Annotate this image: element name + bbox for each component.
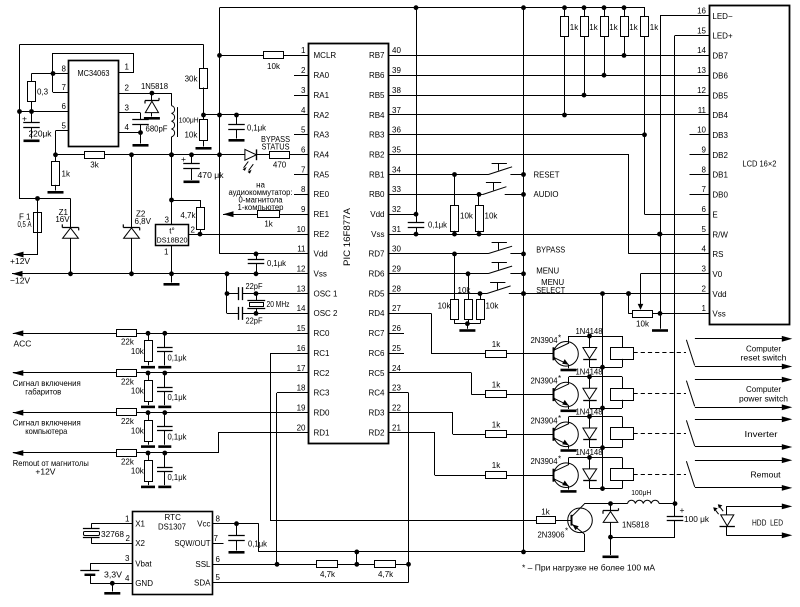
wire LED- to ground (660, 16, 662, 314)
capacitor 0,1uk DS1307 (236, 524, 238, 536)
diode 1N5818 filter (610, 504, 612, 511)
resistor 0,3 (31, 74, 33, 82)
svg-text:0,1μk: 0,1μk (168, 433, 188, 442)
contact lines K1 (695, 338, 789, 340)
wire RB4-DB4 (389, 114, 710, 116)
svg-text:RD6: RD6 (368, 270, 385, 279)
contact lever K2 (686, 381, 694, 407)
wire +12V input top rail (20, 45, 204, 199)
zener Z1 16V (70, 199, 72, 228)
svg-text:компьютера: компьютера (25, 426, 67, 436)
svg-text:10k: 10k (486, 302, 500, 311)
svg-text:2: 2 (125, 84, 130, 93)
svg-text:5: 5 (216, 573, 221, 582)
svg-text:6: 6 (702, 205, 707, 214)
resistor 1k base Q1 (486, 351, 507, 358)
svg-text:BYPASS: BYPASS (536, 245, 565, 254)
crystal 32768 (91, 523, 132, 525)
svg-text:38: 38 (392, 86, 401, 95)
wire MC pin5 (56, 130, 69, 132)
svg-text:1N4148: 1N4148 (576, 368, 604, 377)
svg-text:14: 14 (297, 304, 306, 313)
wire RC3 to SSL (277, 392, 309, 394)
fuse F1 0,5A (23, 199, 38, 255)
svg-text:R/W: R/W (712, 230, 728, 239)
arrow +12V (13, 252, 24, 258)
wire LCD LED+ (675, 35, 710, 37)
link mechanical K2 (634, 393, 687, 395)
svg-text:470 μk: 470 μk (198, 171, 225, 180)
svg-text:Vdd: Vdd (712, 290, 726, 299)
capacitor 0,1uk Vdd11 (254, 252, 259, 257)
svg-text:*: * (558, 455, 561, 464)
svg-text:25: 25 (392, 344, 401, 353)
svg-text:Vss: Vss (371, 230, 384, 239)
diode 1N4148 Q1 (589, 336, 591, 348)
svg-text:6: 6 (62, 102, 67, 111)
svg-text:+: + (680, 505, 685, 515)
svg-text:11: 11 (297, 245, 306, 254)
svg-text:2: 2 (126, 534, 131, 543)
svg-text:1N5818: 1N5818 (141, 82, 169, 91)
svg-text:7: 7 (301, 165, 306, 174)
svg-text:680pF: 680pF (146, 125, 168, 134)
svg-text:24: 24 (392, 364, 401, 373)
wire LCD Vdd (509, 293, 710, 295)
svg-text:22k: 22k (121, 457, 135, 466)
wire RC4 to SDA (389, 392, 409, 394)
resistor 10k MCLR (220, 55, 310, 57)
wire SDA line (408, 564, 410, 582)
wire MC pin7 (53, 92, 69, 94)
wire LED+ drop (674, 36, 676, 504)
stub PIC pin 8 (294, 194, 309, 196)
stub PIC pin 25 (389, 353, 404, 355)
svg-text:10k: 10k (460, 212, 474, 221)
svg-text:2N3904: 2N3904 (531, 336, 559, 345)
junction rail divider (217, 113, 222, 118)
svg-text:10k: 10k (184, 131, 198, 140)
switch RESET (489, 167, 513, 175)
svg-text:13: 13 (297, 284, 306, 293)
svg-text:15: 15 (697, 26, 706, 35)
svg-text:LED−: LED− (712, 12, 733, 21)
sensor DS18B20 (156, 225, 189, 246)
svg-text:1: 1 (164, 248, 169, 257)
svg-text:+: + (22, 114, 27, 124)
svg-text:3: 3 (165, 216, 170, 225)
svg-text:10: 10 (297, 225, 306, 234)
svg-text:8: 8 (62, 65, 67, 74)
resistor 10k reset pulldown (454, 175, 456, 206)
svg-text:33: 33 (392, 185, 401, 194)
svg-text:0,1μk: 0,1μk (248, 540, 268, 549)
svg-text:RD7: RD7 (368, 250, 385, 259)
svg-text:22pF: 22pF (246, 282, 263, 291)
svg-text:RC0: RC0 (314, 329, 331, 338)
capacitor 22pF upper (239, 287, 243, 300)
svg-text:0,1μk: 0,1μk (168, 353, 188, 362)
svg-text:100 μk: 100 μk (684, 515, 710, 524)
contact lines K4 (695, 460, 789, 462)
wire MC pin6 (20, 111, 69, 113)
svg-text:0,1μk: 0,1μk (168, 393, 188, 402)
svg-text:23: 23 (392, 384, 401, 393)
stub LCD DB2 (690, 154, 710, 156)
svg-text:RC7: RC7 (368, 329, 385, 338)
svg-text:8: 8 (216, 515, 221, 524)
svg-text:10k: 10k (458, 286, 472, 295)
junction 4,7k top (169, 198, 174, 203)
stub SQW/OUT (213, 543, 224, 545)
ground LCD Vss (660, 313, 662, 328)
svg-text:1: 1 (301, 46, 306, 55)
svg-text:10k: 10k (438, 302, 452, 311)
wire RD7 bypass (389, 253, 489, 255)
resistor 10k divider (200, 120, 208, 141)
svg-text:5: 5 (301, 126, 306, 135)
svg-text:RB1: RB1 (369, 170, 385, 179)
ground pulldown trio (454, 320, 456, 324)
svg-text:Remout: Remout (751, 470, 782, 480)
inductor 100uH supply (171, 93, 173, 106)
svg-text:1k: 1k (264, 220, 273, 229)
svg-text:DB6: DB6 (712, 71, 728, 80)
resistor 1k pullup DB6 (604, 8, 606, 17)
svg-text:RD5: RD5 (368, 289, 385, 298)
svg-text:22pF: 22pF (246, 317, 263, 326)
svg-text:37: 37 (392, 106, 401, 115)
svg-text:7: 7 (62, 83, 67, 92)
wire relay bottom rail Q2 (590, 408, 623, 410)
svg-text:RD0: RD0 (314, 409, 331, 418)
svg-text:RB7: RB7 (369, 51, 385, 60)
led HDD (726, 506, 788, 508)
svg-text:RB3: RB3 (369, 131, 385, 140)
led BYPASS STATUS (245, 149, 256, 160)
network gabarity input (13, 372, 309, 374)
stub LCD DB0 (690, 194, 710, 196)
contact lever K1 (686, 340, 694, 366)
link mechanical K4 (634, 474, 687, 476)
svg-text:SDA: SDA (194, 578, 211, 587)
stub LCD DB1 (690, 174, 710, 176)
wire collector rail Q2 (569, 376, 622, 378)
svg-text:RA2: RA2 (314, 111, 330, 120)
svg-text:39: 39 (392, 66, 401, 75)
resistor 1k 2N3906 (537, 517, 556, 524)
svg-text:RC1: RC1 (314, 349, 331, 358)
arrow -12V (12, 271, 23, 277)
junction fuse top (35, 196, 40, 201)
svg-text:22k: 22k (121, 338, 135, 347)
svg-text:LED+: LED+ (712, 32, 733, 41)
svg-text:RA5: RA5 (314, 170, 330, 179)
svg-text:RD1: RD1 (314, 428, 331, 437)
svg-text:22k: 22k (121, 417, 135, 426)
svg-text:DB4: DB4 (712, 111, 728, 120)
transistor Q4 2N3904 (554, 463, 579, 488)
svg-text:29: 29 (392, 265, 401, 274)
capacitor 470uk (189, 152, 194, 157)
resistor 1k pullup DB4 (564, 8, 566, 17)
svg-text:HDD LED: HDD LED (752, 518, 783, 528)
ground 1N5818 filter (610, 537, 612, 555)
wire RD6 menu (389, 273, 489, 275)
wire RD2 to row4 (389, 432, 435, 434)
svg-text:RS: RS (712, 250, 723, 259)
svg-text:RD3: RD3 (368, 409, 385, 418)
wire RD4 to row1 (389, 313, 432, 315)
svg-text:RESET: RESET (534, 170, 560, 179)
potentiometer 10k contrast (640, 274, 642, 305)
wire -12V rail (12, 273, 309, 275)
svg-text:35: 35 (392, 146, 401, 155)
wire +5V rail B (523, 8, 525, 552)
wire LCD LED- (660, 15, 710, 17)
wire RB2 to RS (389, 154, 629, 156)
svg-text:RA4: RA4 (314, 151, 330, 160)
network ACC input (13, 333, 309, 335)
svg-text:100μH: 100μH (631, 488, 651, 497)
inductor 100uH filter (628, 500, 660, 503)
svg-text:10k: 10k (267, 62, 281, 71)
wire filter bottom (611, 537, 676, 539)
svg-text:3: 3 (301, 86, 306, 95)
resistor 4,7k DS18B20 (172, 200, 201, 202)
svg-text:STATUS: STATUS (262, 142, 290, 151)
svg-text:21: 21 (392, 423, 401, 432)
svg-text:16V: 16V (55, 215, 70, 224)
diode 1N4148 Q4 (589, 457, 591, 469)
wire RB1 reset (389, 174, 489, 176)
chip U1 MC34063 (69, 61, 119, 147)
svg-text:12: 12 (697, 86, 706, 95)
wire pullup mid stub (356, 552, 358, 564)
svg-text:7: 7 (214, 534, 219, 543)
svg-text:DB7: DB7 (712, 52, 728, 61)
svg-text:2N3906: 2N3906 (538, 531, 566, 540)
svg-text:12: 12 (297, 265, 306, 274)
svg-text:2N3904: 2N3904 (531, 416, 559, 425)
wire base Q4 (507, 475, 554, 477)
svg-text:10k: 10k (131, 426, 145, 435)
svg-text:10k: 10k (131, 467, 145, 476)
wire base Q2 (507, 394, 554, 396)
svg-text:30k: 30k (185, 75, 199, 84)
svg-text:RB2: RB2 (369, 151, 385, 160)
svg-text:14: 14 (697, 46, 706, 55)
wire base Q1 (507, 353, 554, 355)
svg-text:Vss: Vss (314, 270, 327, 279)
svg-text:+12V: +12V (10, 256, 30, 266)
svg-text:DB3: DB3 (712, 131, 728, 140)
svg-text:3: 3 (125, 104, 130, 113)
svg-text:RC4: RC4 (368, 389, 385, 398)
wire DS18B20 gnd (171, 246, 173, 274)
wire MC pin2 (119, 93, 172, 95)
svg-text:20 MHz: 20 MHz (267, 300, 290, 309)
display LCD 16x2 (710, 6, 790, 325)
wire relay bottom rail Q4 (590, 488, 623, 490)
svg-text:2N3904: 2N3904 (531, 377, 559, 386)
svg-text:*: * (558, 333, 561, 342)
resistor 1k base Q3 (486, 431, 507, 438)
svg-text:32: 32 (392, 205, 401, 214)
stub PIC pin 2 (294, 75, 309, 77)
resistor 30k (203, 45, 205, 69)
wire Vdd pin32 (389, 214, 416, 216)
wire MC pin4 (119, 132, 141, 134)
wire MC pin8 (32, 73, 69, 75)
svg-text:RA1: RA1 (314, 91, 330, 100)
transistor Q1 2N3904 (554, 342, 579, 367)
svg-text:power switch: power switch (739, 393, 788, 403)
wire +5V left rail (219, 8, 221, 254)
transistor Q2 2N3904 (554, 382, 579, 407)
capacitor 220uk (31, 112, 33, 123)
svg-text:3: 3 (702, 265, 707, 274)
rtc DS1307 (133, 512, 213, 595)
diode 1N5818 supply (150, 91, 155, 96)
junction pin8 (51, 71, 56, 76)
junction Z1 bottom (68, 271, 73, 276)
stub PIC pin 5 (294, 134, 309, 136)
svg-text:ACC: ACC (14, 338, 32, 348)
svg-text:1-компьютер: 1-компьютер (238, 203, 285, 212)
svg-text:4,7k: 4,7k (180, 211, 196, 220)
svg-text:GND: GND (135, 579, 153, 588)
resistor 1k RE1 (258, 211, 280, 218)
svg-text:SQW/OUT: SQW/OUT (175, 539, 211, 548)
svg-text:E: E (712, 210, 717, 219)
wire LCD V0 (641, 273, 710, 275)
svg-text:Vcc: Vcc (197, 519, 210, 528)
wire relay bottom rail Q1 (590, 367, 623, 369)
svg-text:1k: 1k (62, 170, 71, 179)
wire RB6-DB6 (389, 75, 710, 77)
svg-text:11: 11 (698, 106, 707, 115)
svg-text:MENU: MENU (536, 266, 559, 275)
svg-text:RC3: RC3 (314, 389, 331, 398)
svg-text:RC6: RC6 (368, 349, 385, 358)
svg-text:0,1μk: 0,1μk (168, 473, 188, 482)
relay K3 (622, 417, 624, 428)
capacitor 100uk (674, 504, 676, 517)
svg-text:4: 4 (125, 574, 130, 583)
svg-text:RA0: RA0 (314, 71, 330, 80)
relay K1 (622, 336, 624, 347)
svg-text:1k: 1k (492, 461, 501, 470)
svg-text:0,1μk: 0,1μk (267, 259, 287, 268)
svg-text:RE2: RE2 (314, 230, 330, 239)
wire MC pin1 loop to pin8 (53, 54, 134, 74)
ground pin4 (140, 133, 142, 144)
wire relay bottom rail Q3 (590, 447, 623, 449)
svg-text:1k: 1k (492, 420, 501, 429)
relay K2 (622, 377, 624, 388)
wire OSC common (225, 271, 230, 276)
wire 5V output rail (56, 154, 310, 156)
svg-text:DB2: DB2 (712, 151, 728, 160)
stub PIC pin 7 (294, 174, 309, 176)
svg-text:0,5 А: 0,5 А (18, 220, 32, 229)
svg-text:32768: 32768 (101, 530, 125, 539)
wire DS18B20 feed (169, 152, 174, 157)
svg-text:36: 36 (392, 126, 401, 135)
svg-text:1k: 1k (629, 23, 638, 32)
svg-text:RB0: RB0 (369, 190, 385, 199)
svg-text:1: 1 (125, 515, 130, 524)
junction pin5 3k (53, 152, 58, 157)
svg-text:4,7k: 4,7k (320, 570, 336, 579)
svg-text:0,1μk: 0,1μk (247, 124, 267, 133)
wire collector rail Q1 (569, 336, 622, 338)
wire DS1307 Vcc (213, 523, 259, 525)
svg-text:6: 6 (216, 555, 221, 564)
svg-text:7: 7 (702, 185, 707, 194)
switch MENU (489, 266, 513, 273)
diode 1N4148 Q2 (589, 377, 591, 389)
link mechanical K1 (634, 352, 687, 354)
svg-text:10k: 10k (131, 347, 145, 356)
wire RD5 menuselect (389, 293, 487, 295)
svg-text:470: 470 (273, 161, 287, 170)
svg-text:4: 4 (125, 123, 130, 132)
junction rail MCLR (217, 53, 222, 58)
wire collector rail Q3 (569, 416, 622, 418)
svg-text:X2: X2 (135, 539, 145, 548)
svg-text:2: 2 (301, 66, 306, 75)
svg-text:30: 30 (392, 245, 401, 254)
svg-text:15: 15 (297, 324, 306, 333)
svg-text:3: 3 (125, 554, 130, 563)
svg-text:MCLR: MCLR (314, 51, 337, 60)
junction rail out (217, 152, 222, 157)
wire OSC1 (227, 293, 238, 295)
resistor 10k audio pulldown (478, 194, 480, 205)
resistor 1k pullup E (644, 8, 646, 17)
link mechanical K3 (634, 433, 687, 435)
svg-text:RE0: RE0 (314, 190, 330, 199)
svg-text:10: 10 (697, 126, 706, 135)
svg-text:t°: t° (169, 227, 174, 236)
svg-text:1k: 1k (650, 23, 659, 32)
network computer-on input (13, 412, 309, 414)
junction divider (201, 113, 206, 118)
capacitor 680pF (132, 120, 149, 125)
wire RC5 to row2 (389, 372, 472, 374)
svg-text:RB6: RB6 (369, 71, 385, 80)
junction inductor out (169, 152, 174, 157)
svg-text:AUDIO: AUDIO (534, 190, 559, 199)
svg-text:RC5: RC5 (368, 369, 385, 378)
junction pin4 cap (138, 130, 143, 135)
svg-text:31: 31 (392, 225, 401, 234)
svg-text:DB5: DB5 (712, 91, 728, 100)
battery 3,3V (90, 563, 133, 565)
stub LCD DB3 (690, 134, 710, 136)
svg-text:PIC 16F877A: PIC 16F877A (342, 207, 353, 266)
svg-text:SSL: SSL (195, 560, 211, 569)
svg-text:DB0: DB0 (712, 191, 728, 200)
svg-text:*: * (558, 374, 561, 383)
svg-text:13: 13 (697, 66, 706, 75)
svg-text:16: 16 (697, 7, 706, 16)
resistor 1k pullup DB5 (584, 8, 586, 17)
svg-text:Vss: Vss (712, 310, 725, 319)
svg-text:X1: X1 (135, 520, 145, 529)
